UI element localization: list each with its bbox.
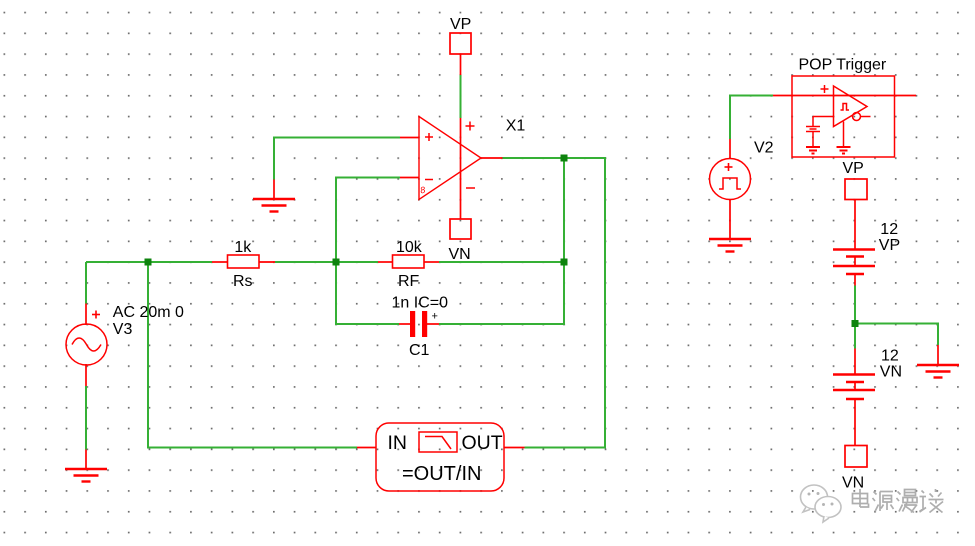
- svg-text:=OUT/IN: =OUT/IN: [402, 463, 481, 485]
- svg-text:+: +: [432, 311, 438, 323]
- svg-text:10k: 10k: [396, 239, 423, 256]
- svg-text:VN: VN: [449, 246, 471, 263]
- svg-text:1n IC=0: 1n IC=0: [392, 295, 449, 312]
- svg-text:VP: VP: [879, 237, 900, 254]
- svg-text:VP: VP: [450, 16, 471, 33]
- svg-text:V3: V3: [113, 321, 133, 338]
- svg-text:OUT: OUT: [462, 432, 503, 454]
- svg-text:VN: VN: [880, 364, 902, 381]
- svg-text:Rs: Rs: [233, 273, 253, 290]
- svg-text:IN: IN: [388, 432, 408, 454]
- svg-text:12: 12: [880, 221, 898, 238]
- svg-text:X1: X1: [506, 118, 526, 135]
- svg-text:AC 20m 0: AC 20m 0: [113, 304, 184, 321]
- svg-text:POP Trigger: POP Trigger: [799, 57, 887, 74]
- svg-text:C1: C1: [409, 342, 430, 359]
- svg-text:1k: 1k: [234, 239, 252, 256]
- svg-text:VN: VN: [842, 475, 864, 492]
- svg-text:12: 12: [881, 348, 899, 365]
- svg-text:RF: RF: [398, 273, 420, 290]
- svg-text:VP: VP: [843, 160, 864, 177]
- svg-text:V2: V2: [754, 140, 774, 157]
